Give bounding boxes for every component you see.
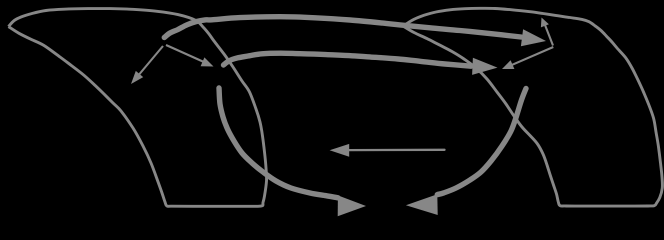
long thin horizontal arrow pointing left <box>349 149 445 152</box>
thick trajectory arrow 1 (upper, left cap to right arrowhead) <box>164 17 521 38</box>
thick trajectory arrow 4 (left side sweeping down-right) <box>219 88 338 198</box>
thick trajectory arrow 2 (middle, left cap to right arrowhead) <box>224 53 472 66</box>
small scatter arrow down-left from right hub <box>511 47 553 65</box>
right curved reflector outline <box>403 8 662 206</box>
left curved reflector outline <box>9 9 267 207</box>
small scatter arrow up from right hub <box>545 25 553 46</box>
small scatter arrow down-right at left cap <box>166 45 205 63</box>
small scatter arrow down-left at left cap <box>137 46 163 77</box>
thick trajectory arrow 3 (right side sweeping down-left) <box>437 89 526 195</box>
